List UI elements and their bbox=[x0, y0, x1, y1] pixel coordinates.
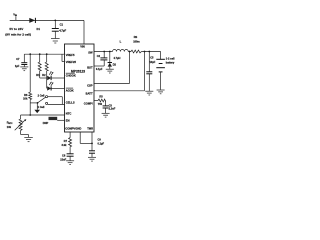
svg-text:1-2 cell: 1-2 cell bbox=[166, 56, 175, 60]
svg-text:VREF25: VREF25 bbox=[66, 60, 77, 64]
svg-text:0.1µF: 0.1µF bbox=[98, 142, 105, 146]
svg-text:GND: GND bbox=[75, 126, 81, 130]
svg-text:C8: C8 bbox=[62, 153, 66, 157]
svg-text:ACOK: ACOK bbox=[66, 88, 74, 92]
svg-text:R2: R2 bbox=[42, 73, 46, 77]
svg-text:22nF: 22nF bbox=[60, 158, 66, 162]
svg-text:10µF: 10µF bbox=[150, 60, 156, 64]
svg-text:COMPV: COMPV bbox=[65, 126, 75, 130]
svg-text:5V to 24V: 5V to 24V bbox=[9, 27, 24, 31]
svg-text:1 Cell: 1 Cell bbox=[38, 105, 45, 109]
svg-text:R7: R7 bbox=[64, 139, 68, 143]
svg-text:C9: C9 bbox=[98, 137, 102, 141]
svg-text:R5: R5 bbox=[99, 94, 103, 98]
svg-text:3.9k: 3.9k bbox=[62, 143, 68, 147]
svg-text:RS: RS bbox=[134, 35, 138, 39]
svg-text:(9V min for 2 cell): (9V min for 2 cell) bbox=[5, 32, 31, 36]
svg-text:2.2nF: 2.2nF bbox=[109, 107, 116, 111]
svg-text:4.7µH: 4.7µH bbox=[114, 56, 121, 60]
svg-text:COMPI: COMPI bbox=[84, 101, 93, 105]
svg-text:NTC: NTC bbox=[66, 111, 72, 115]
svg-text:0.1µF: 0.1µF bbox=[96, 67, 103, 71]
svg-text:D2: D2 bbox=[113, 62, 117, 66]
svg-text:1µF: 1µF bbox=[15, 64, 20, 68]
svg-text:D1: D1 bbox=[37, 27, 41, 31]
svg-text:10k: 10k bbox=[23, 97, 28, 101]
svg-text:C1: C1 bbox=[60, 23, 64, 27]
svg-text:CELLS: CELLS bbox=[66, 101, 75, 105]
svg-text:TMR: TMR bbox=[87, 126, 93, 130]
svg-text:VREF5: VREF5 bbox=[66, 53, 75, 57]
svg-text:100m: 100m bbox=[133, 40, 140, 44]
svg-text:battery: battery bbox=[166, 61, 175, 65]
svg-text:2 Cell: 2 Cell bbox=[38, 93, 45, 97]
svg-text:EN: EN bbox=[66, 119, 70, 123]
svg-text:10k: 10k bbox=[7, 125, 12, 129]
svg-text:4.7µF: 4.7µF bbox=[59, 29, 66, 33]
svg-text:C7: C7 bbox=[16, 57, 20, 61]
svg-text:SW: SW bbox=[88, 51, 93, 55]
svg-text:CHGOK: CHGOK bbox=[66, 73, 76, 77]
svg-text:R1: R1 bbox=[36, 73, 40, 77]
svg-text:R6: R6 bbox=[24, 93, 28, 97]
svg-text:CSP: CSP bbox=[87, 84, 93, 88]
svg-text:VIN: VIN bbox=[80, 45, 85, 49]
svg-text:C2: C2 bbox=[97, 54, 101, 58]
svg-text:750: 750 bbox=[98, 102, 103, 106]
svg-text:BATT: BATT bbox=[86, 92, 93, 96]
svg-text:BST: BST bbox=[87, 66, 93, 70]
svg-text:DNP: DNP bbox=[43, 121, 49, 125]
svg-text:C5: C5 bbox=[150, 56, 154, 60]
